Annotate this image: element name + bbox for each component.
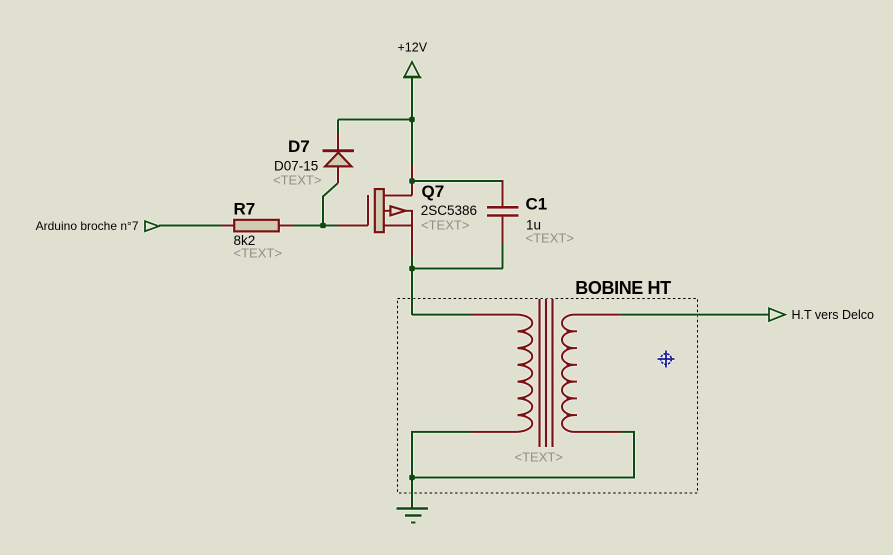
svg-text:Arduino broche n°7: Arduino broche n°7 bbox=[36, 219, 139, 233]
svg-text:<TEXT>: <TEXT> bbox=[515, 450, 563, 465]
svg-text:<TEXT>: <TEXT> bbox=[526, 231, 574, 246]
svg-text:Q7: Q7 bbox=[422, 182, 445, 201]
svg-text:D07-15: D07-15 bbox=[274, 159, 318, 174]
svg-text:H.T vers Delco: H.T vers Delco bbox=[792, 308, 874, 322]
svg-text:<TEXT>: <TEXT> bbox=[234, 246, 282, 261]
svg-text:R7: R7 bbox=[234, 200, 256, 219]
svg-text:D7: D7 bbox=[288, 137, 310, 156]
svg-text:BOBINE HT: BOBINE HT bbox=[575, 278, 671, 298]
svg-text:+12V: +12V bbox=[398, 41, 428, 55]
svg-text:C1: C1 bbox=[526, 195, 548, 214]
svg-text:2SC5386: 2SC5386 bbox=[421, 203, 477, 218]
svg-text:<TEXT>: <TEXT> bbox=[421, 218, 469, 233]
svg-text:<TEXT>: <TEXT> bbox=[273, 173, 321, 188]
